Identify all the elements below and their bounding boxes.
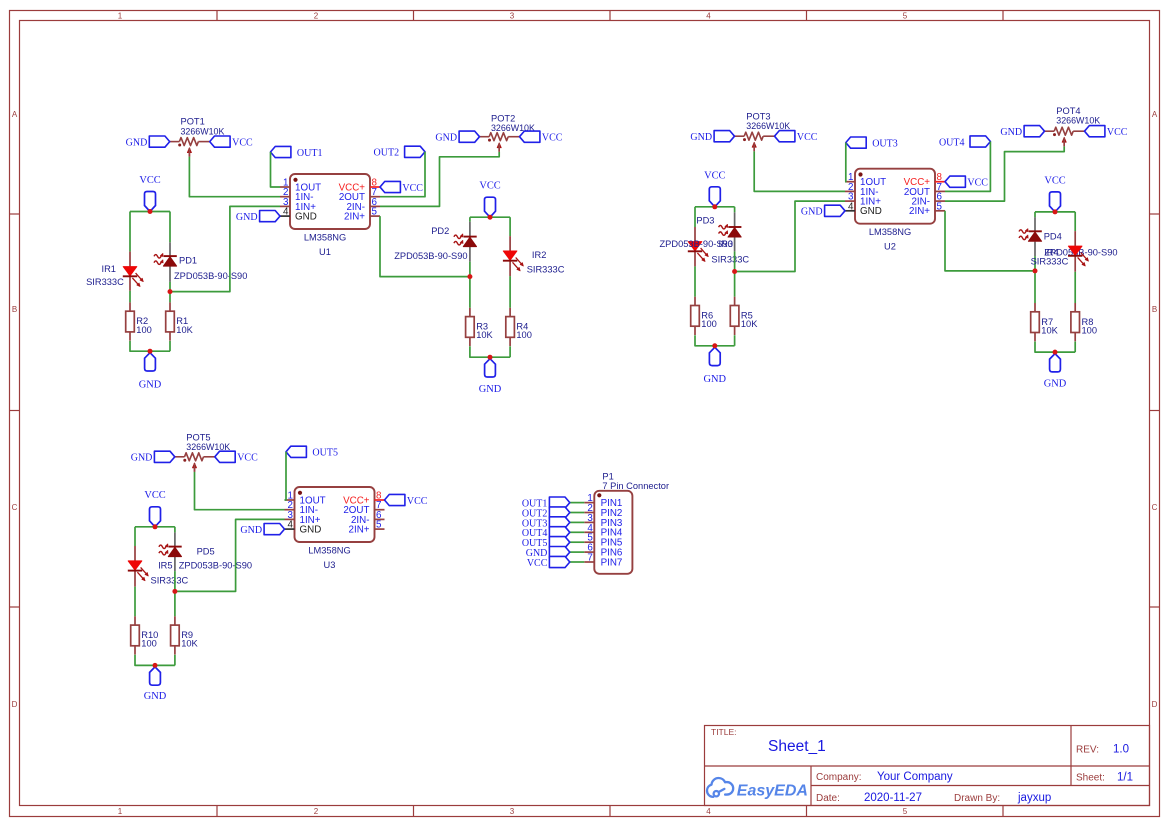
PD4 pin (gray) (1034, 217, 1036, 231)
svg-text:PD1: PD1 (179, 255, 197, 265)
svg-text:Drawn By:: Drawn By: (954, 793, 1000, 804)
svg-text:VCC: VCC (237, 453, 258, 464)
wire bottom rail ch5 (135, 655, 175, 666)
op-amp U3 pin 7 (2OUT) (375, 509, 385, 511)
svg-text:2020-11-27: 2020-11-27 (864, 792, 922, 804)
photodiode PD3 (728, 226, 741, 228)
net flag OUT5 (286, 446, 306, 457)
net flag VCC at POT1 (210, 136, 230, 147)
wire PD5 node to U3 pin3 (175, 519, 285, 591)
svg-text:EasyEDA: EasyEDA (737, 782, 808, 799)
svg-text:3: 3 (510, 807, 515, 816)
photodiode PD5 (169, 546, 182, 548)
op-amp U2 pin 2 (1IN-) (845, 190, 855, 192)
svg-text:SIR333C: SIR333C (86, 277, 124, 287)
net flag GND at P1 (549, 547, 569, 558)
connector P1 pin 1 (584, 502, 594, 504)
wire IR4 to R8 (1074, 272, 1076, 303)
potentiometer POT1 wiper (188, 152, 190, 157)
op-amp U1 pin 5 (2IN+) (370, 215, 380, 217)
wire node to R9 (174, 591, 176, 616)
wire R8 to bottom rail (1074, 342, 1076, 353)
svg-text:ZPD053B-90-S90: ZPD053B-90-S90 (179, 561, 252, 571)
svg-text:5: 5 (372, 207, 378, 218)
net flag OUT1 (271, 146, 291, 157)
connector P1 pin 7 (584, 561, 594, 563)
net flag VCC at U1 pin8 (380, 181, 400, 192)
op-amp U3 pin 5 (2IN+) (375, 528, 385, 530)
potentiometer POT4 body (1054, 127, 1073, 135)
potentiometer POT3 body (744, 132, 763, 140)
op-amp U2 pin 8 (VCC+) (935, 181, 945, 183)
svg-text:3266W10K: 3266W10K (1056, 116, 1100, 126)
op-amp U3 pin 2 (1IN-) (285, 509, 295, 511)
svg-text:C: C (1152, 503, 1158, 512)
wire VCC rail ch1 (130, 211, 170, 213)
svg-text:10K: 10K (476, 330, 493, 340)
wire PD2 to node (469, 262, 471, 277)
junction at VCC symbol (1053, 209, 1058, 214)
wire U1 pin7 to OUT2 (380, 152, 425, 197)
PD5 pin (gray) (174, 532, 176, 546)
op-amp U1 pin 1 (1OUT) (280, 186, 290, 188)
junction PD3/R5 node (732, 269, 737, 274)
svg-text:POT3: POT3 (746, 112, 770, 122)
net flag GND at U1 pin4 (260, 211, 280, 222)
resistor R7 (1034, 303, 1036, 312)
wire VCC rail ch3 (695, 206, 735, 208)
wire VCC to IR4 (1074, 212, 1076, 231)
net flag VCC at POT4 (1085, 126, 1105, 137)
svg-text:GND: GND (801, 207, 823, 218)
svg-text:7: 7 (587, 553, 592, 564)
svg-text:GND: GND (479, 384, 502, 395)
svg-text:10K: 10K (1041, 325, 1058, 335)
svg-text:GND: GND (295, 212, 317, 223)
op-amp U1 pin 2 (1IN-) (280, 196, 290, 198)
net flag OUT2 at P1 (549, 507, 569, 518)
wire VCC to PD4 (1034, 212, 1036, 217)
svg-text:POT2: POT2 (491, 113, 515, 123)
svg-text:VCC: VCC (407, 496, 428, 507)
svg-text:GND: GND (126, 138, 148, 149)
svg-text:OUT5: OUT5 (312, 448, 338, 459)
svg-text:SIR333C: SIR333C (151, 576, 189, 586)
junction PD4/R7 node (1033, 268, 1038, 273)
net flag OUT3 (846, 137, 866, 148)
wire OUT1 to U1 pin1 (271, 152, 281, 187)
wire bottom rail ch4 (1035, 342, 1075, 353)
svg-text:VCC: VCC (967, 178, 988, 189)
wire PD3 node to U2 pin3 (735, 201, 845, 271)
resistor R1 (169, 302, 171, 311)
svg-text:100: 100 (141, 639, 157, 649)
wire VCC to P1 pin 7 (570, 561, 585, 563)
svg-text:POT4: POT4 (1056, 106, 1080, 116)
wire node to R7 (1034, 271, 1036, 303)
wire U2 pin5 to PD4 node (945, 211, 1035, 271)
svg-text:GND: GND (144, 691, 167, 702)
wire R9 to bottom rail (174, 655, 176, 666)
resistor R10 (134, 616, 136, 625)
IR LED IR4 (1068, 246, 1082, 255)
wire POT5 wiper to U3 pin2 (195, 472, 285, 510)
wire VCC rail ch4 (1035, 211, 1075, 213)
svg-text:1: 1 (118, 12, 123, 21)
svg-text:C: C (12, 503, 18, 512)
potentiometer POT1 body (179, 138, 198, 146)
svg-text:GND: GND (131, 453, 153, 464)
junction at VCC symbol (148, 209, 153, 214)
connector P1 pin1 marker (597, 493, 601, 497)
junction at VCC symbol (153, 524, 158, 529)
wire VCC to PD5 (174, 527, 176, 533)
photodiode PD2 (464, 236, 477, 238)
svg-text:PD5: PD5 (197, 546, 215, 556)
svg-text:VCC: VCC (797, 132, 818, 143)
wire PD1 node to U1 pin3 (170, 206, 280, 291)
wire U1 pin5 to PD2 node (380, 216, 470, 277)
svg-text:7 Pin Connector: 7 Pin Connector (602, 481, 669, 491)
wire PD1 to node (169, 282, 171, 292)
PD1 pin (gray) (169, 242, 171, 256)
svg-text:Sheet:: Sheet: (1076, 773, 1105, 784)
svg-text:5: 5 (937, 201, 943, 212)
svg-text:5: 5 (376, 520, 382, 531)
svg-text:VCC: VCC (542, 133, 563, 144)
op-amp U3 pin 6 (2IN-) (375, 518, 385, 520)
IR LED IR3 (688, 242, 702, 251)
IR1 pin stubs (129, 252, 131, 267)
svg-text:Your Company: Your Company (877, 771, 953, 783)
IR3 pin stubs (694, 227, 696, 242)
svg-text:LM358NG: LM358NG (869, 227, 911, 237)
IR2 pin stubs (509, 236, 511, 251)
svg-text:VCC: VCC (479, 180, 500, 191)
svg-text:2: 2 (314, 12, 319, 21)
op-amp U1 pin 3 (1IN+) (280, 205, 290, 207)
VCC power symbol (485, 197, 496, 217)
svg-text:IR1: IR1 (102, 264, 116, 274)
op-amp U3 body (295, 487, 375, 542)
net flag GND at U2 pin4 (825, 205, 845, 216)
svg-text:LM358NG: LM358NG (304, 232, 346, 242)
svg-text:3266W10K: 3266W10K (746, 121, 790, 131)
op-amp U2 pin 6 (2IN-) (935, 200, 945, 202)
net flag VCC at POT5 (215, 451, 235, 462)
svg-text:VCC: VCC (144, 490, 165, 501)
net flag OUT2 (405, 146, 425, 157)
svg-text:IR5: IR5 (158, 561, 172, 571)
wire IR5 to R10 (134, 587, 136, 617)
wire VCC rail ch2 (470, 216, 510, 218)
svg-text:GND: GND (690, 132, 712, 143)
svg-text:10K: 10K (176, 325, 193, 335)
svg-text:LM358NG: LM358NG (308, 545, 350, 555)
svg-text:IR2: IR2 (532, 250, 546, 260)
EasyEDA logo (707, 778, 733, 797)
net flag VCC at U3 pin8 (385, 494, 405, 505)
svg-text:U3: U3 (324, 560, 336, 570)
VCC power symbol (1050, 192, 1061, 212)
op-amp U2 pin 4 (GND) (845, 210, 855, 212)
net flag OUT5 at P1 (549, 537, 569, 548)
PD2 pin (gray) (469, 222, 471, 237)
svg-text:ZPD053B-90-S90: ZPD053B-90-S90 (660, 239, 733, 249)
svg-text:VCC: VCC (1107, 127, 1128, 138)
wire GND to P1 pin 6 (570, 551, 585, 553)
op-amp U2 pin 1 (1OUT) (845, 181, 855, 183)
VCC power symbol (709, 187, 720, 207)
VCC power symbol (150, 507, 161, 527)
net flag GND at POT5 (154, 451, 174, 462)
svg-text:GND: GND (236, 212, 258, 223)
GND power symbol (145, 353, 156, 371)
op-amp U1 pin 6 (2IN-) (370, 205, 380, 207)
resistor R3 (469, 308, 471, 317)
svg-text:10K: 10K (181, 639, 198, 649)
op-amp U1 body (290, 174, 370, 229)
svg-text:OUT4: OUT4 (939, 137, 965, 148)
IR4 pin stubs (1074, 231, 1076, 246)
svg-text:SIR333C: SIR333C (711, 255, 749, 265)
net flag VCC at POT3 (775, 131, 795, 142)
net flag GND at POT3 (714, 131, 734, 142)
net flag OUT4 (970, 136, 990, 147)
connector P1 pin 2 (584, 512, 594, 514)
junction PD1/R1 node (168, 289, 173, 294)
svg-text:OUT2: OUT2 (374, 148, 400, 159)
svg-text:VCC: VCC (402, 183, 423, 194)
wire IR1 to R2 (129, 291, 131, 303)
net flag OUT4 at P1 (549, 527, 569, 538)
title block frame (705, 726, 1150, 806)
VCC power symbol (145, 192, 156, 212)
svg-text:VCC: VCC (232, 138, 253, 149)
op-amp U2 body (855, 169, 935, 224)
junction PD2/R3 node (467, 274, 472, 279)
resistor R9 (174, 616, 176, 625)
wire U1 pin6 to POT2 wiper (380, 152, 499, 207)
svg-text:GND: GND (240, 525, 262, 536)
wire bottom rail ch3 (695, 335, 735, 346)
potentiometer POT2 wiper (498, 147, 500, 152)
svg-text:4: 4 (288, 520, 294, 531)
svg-text:2: 2 (314, 807, 319, 816)
connector P1 pin 6 (584, 551, 594, 553)
svg-text:2IN+: 2IN+ (349, 525, 370, 536)
op-amp U2 pin 5 (2IN+) (935, 210, 945, 212)
IR5 pin stubs (134, 546, 136, 561)
op-amp U1 pin 7 (2OUT) (370, 196, 380, 198)
svg-text:2IN+: 2IN+ (909, 206, 930, 217)
svg-text:POT1: POT1 (181, 117, 205, 127)
svg-text:1: 1 (118, 807, 123, 816)
svg-text:100: 100 (1082, 325, 1098, 335)
junction at GND symbol (1053, 350, 1058, 355)
svg-text:D: D (1152, 700, 1158, 709)
potentiometer POT2 body (489, 133, 508, 141)
junction PD5/R9 node (172, 589, 177, 594)
svg-text:SIR333C: SIR333C (527, 265, 565, 275)
photodiode PD1 (164, 255, 177, 257)
wire R1 to bottom rail (169, 341, 171, 351)
resistor R6 (694, 297, 696, 306)
svg-text:VCC: VCC (139, 175, 160, 186)
svg-text:GND: GND (860, 206, 882, 217)
svg-text:B: B (1152, 305, 1157, 314)
op-amp U2 pin 3 (1IN+) (845, 200, 855, 202)
photodiode PD4 (1029, 230, 1042, 232)
resistor R2 (129, 302, 131, 311)
svg-text:OUT3: OUT3 (872, 139, 898, 150)
op-amp U1 pin 8 (VCC+) (370, 186, 380, 188)
junction at GND symbol (148, 349, 153, 354)
svg-text:D: D (12, 700, 18, 709)
svg-text:PIN7: PIN7 (601, 557, 623, 568)
svg-text:5: 5 (903, 12, 908, 21)
svg-text:100: 100 (136, 325, 152, 335)
op-amp U1 pin 4 (GND) (280, 215, 290, 217)
wire PD5 to node (174, 571, 176, 591)
op-amp U2 pin1 marker (858, 172, 862, 176)
connector P1 pin 4 (584, 531, 594, 533)
connector P1 pin 3 (584, 521, 594, 523)
wire node to R1 (169, 292, 171, 303)
svg-text:GND: GND (1000, 127, 1022, 138)
svg-text:1/1: 1/1 (1117, 772, 1133, 784)
wire OUT3 to U2 pin1 (844, 143, 847, 182)
potentiometer POT3 wiper (753, 147, 755, 152)
svg-text:GND: GND (1044, 379, 1067, 390)
wire bottom rail ch2 (470, 346, 510, 357)
op-amp U2 pin 7 (2OUT) (935, 190, 945, 192)
svg-text:100: 100 (516, 330, 532, 340)
svg-text:PD4: PD4 (1044, 231, 1062, 241)
svg-text:VCC: VCC (704, 170, 725, 181)
wire IR2 to R4 (509, 276, 511, 308)
resistor R8 (1074, 303, 1076, 312)
wire to IR1 anode (129, 212, 131, 252)
wire bottom rail ch1 (130, 341, 170, 351)
svg-text:P1: P1 (602, 471, 613, 481)
svg-text:ZPD053B-90-S90: ZPD053B-90-S90 (174, 271, 247, 281)
svg-text:GND: GND (139, 380, 162, 391)
svg-text:100: 100 (701, 319, 717, 329)
svg-text:jayxup: jayxup (1017, 792, 1051, 804)
op-amp U3 pin 4 (GND) (285, 528, 295, 530)
GND power symbol (1050, 354, 1061, 372)
resistor R4 (509, 308, 511, 317)
net flag VCC at U2 pin8 (945, 176, 965, 187)
svg-text:4: 4 (706, 12, 711, 21)
IR LED IR1 (123, 267, 137, 276)
svg-text:ZPD053B-90-S90: ZPD053B-90-S90 (394, 251, 467, 261)
svg-text:U2: U2 (884, 242, 896, 252)
svg-text:10K: 10K (741, 319, 758, 329)
svg-text:B: B (12, 305, 17, 314)
op-amp U3 pin 1 (1OUT) (285, 499, 295, 501)
svg-text:A: A (1152, 110, 1158, 119)
svg-text:4: 4 (283, 207, 289, 218)
svg-text:4: 4 (848, 201, 854, 212)
wire OUT3 to P1 pin 3 (570, 521, 585, 523)
wire IR3 to R6 (694, 266, 696, 296)
net flag OUT1 at P1 (549, 497, 569, 508)
svg-text:A: A (12, 110, 18, 119)
svg-text:GND: GND (435, 133, 457, 144)
junction at GND symbol (153, 663, 158, 668)
net flag GND at POT1 (149, 136, 169, 147)
wire node to R5 (734, 272, 736, 297)
op-amp U3 pin 3 (1IN+) (285, 518, 295, 520)
net flag GND at U3 pin4 (264, 524, 284, 535)
potentiometer POT4 wiper (1063, 142, 1065, 147)
net flag VCC at P1 (549, 556, 569, 567)
svg-text:TITLE:: TITLE: (711, 727, 737, 737)
ruler ticks (216, 11, 218, 21)
potentiometer POT5 wiper (194, 467, 196, 472)
svg-text:1.0: 1.0 (1113, 744, 1129, 756)
wire VCC to IR2 (509, 217, 511, 236)
svg-text:3266W10K: 3266W10K (181, 126, 225, 136)
wire R4 to bottom rail (509, 346, 511, 357)
wire node to R3 (469, 277, 471, 308)
svg-text:POT5: POT5 (186, 433, 210, 443)
op-amp U3 pin 8 (VCC+) (375, 499, 385, 501)
svg-text:PD2: PD2 (431, 226, 449, 236)
wire VCC to PD2 (469, 217, 471, 222)
net flag GND at POT4 (1024, 126, 1044, 137)
GND power symbol (485, 359, 496, 377)
wire to IR3 (694, 207, 696, 227)
junction at GND symbol (488, 355, 493, 360)
svg-text:VCC: VCC (1044, 176, 1065, 187)
junction at VCC symbol (488, 215, 493, 220)
IR LED IR5 (128, 561, 142, 570)
svg-text:GND: GND (300, 525, 322, 536)
wire to IR5 (134, 527, 136, 546)
connector P1 body (594, 491, 632, 574)
junction at VCC symbol (712, 204, 717, 209)
svg-text:REV:: REV: (1076, 745, 1099, 756)
IR LED IR2 (503, 251, 517, 260)
wire PD3 to node (734, 251, 736, 271)
svg-text:5: 5 (903, 807, 908, 816)
wire POT3 wiper to U2 pin2 (754, 151, 845, 191)
svg-text:U1: U1 (319, 247, 331, 257)
wire U2 pin6 to POT4 wiper (945, 146, 1064, 201)
net flag OUT3 at P1 (549, 517, 569, 528)
resistor R5 (734, 297, 736, 306)
wire OUT1 to P1 pin 1 (570, 502, 585, 504)
svg-text:VCC: VCC (527, 558, 548, 569)
svg-text:OUT1: OUT1 (297, 148, 323, 159)
connector P1 pin 5 (584, 541, 594, 543)
svg-text:3: 3 (510, 12, 515, 21)
svg-text:Sheet_1: Sheet_1 (768, 738, 826, 755)
wire U2 pin7 to OUT4 (945, 142, 990, 192)
op-amp U3 pin1 marker (298, 491, 302, 495)
svg-text:Date:: Date: (816, 793, 840, 804)
wire R5 to bottom rail (734, 335, 736, 346)
GND power symbol (150, 667, 161, 685)
wire VCC rail ch5 (135, 526, 175, 528)
wire OUT4 to P1 pin 4 (570, 531, 585, 533)
svg-text:4: 4 (706, 807, 711, 816)
wire PD4 to node (1034, 256, 1036, 271)
GND power symbol (709, 347, 720, 365)
